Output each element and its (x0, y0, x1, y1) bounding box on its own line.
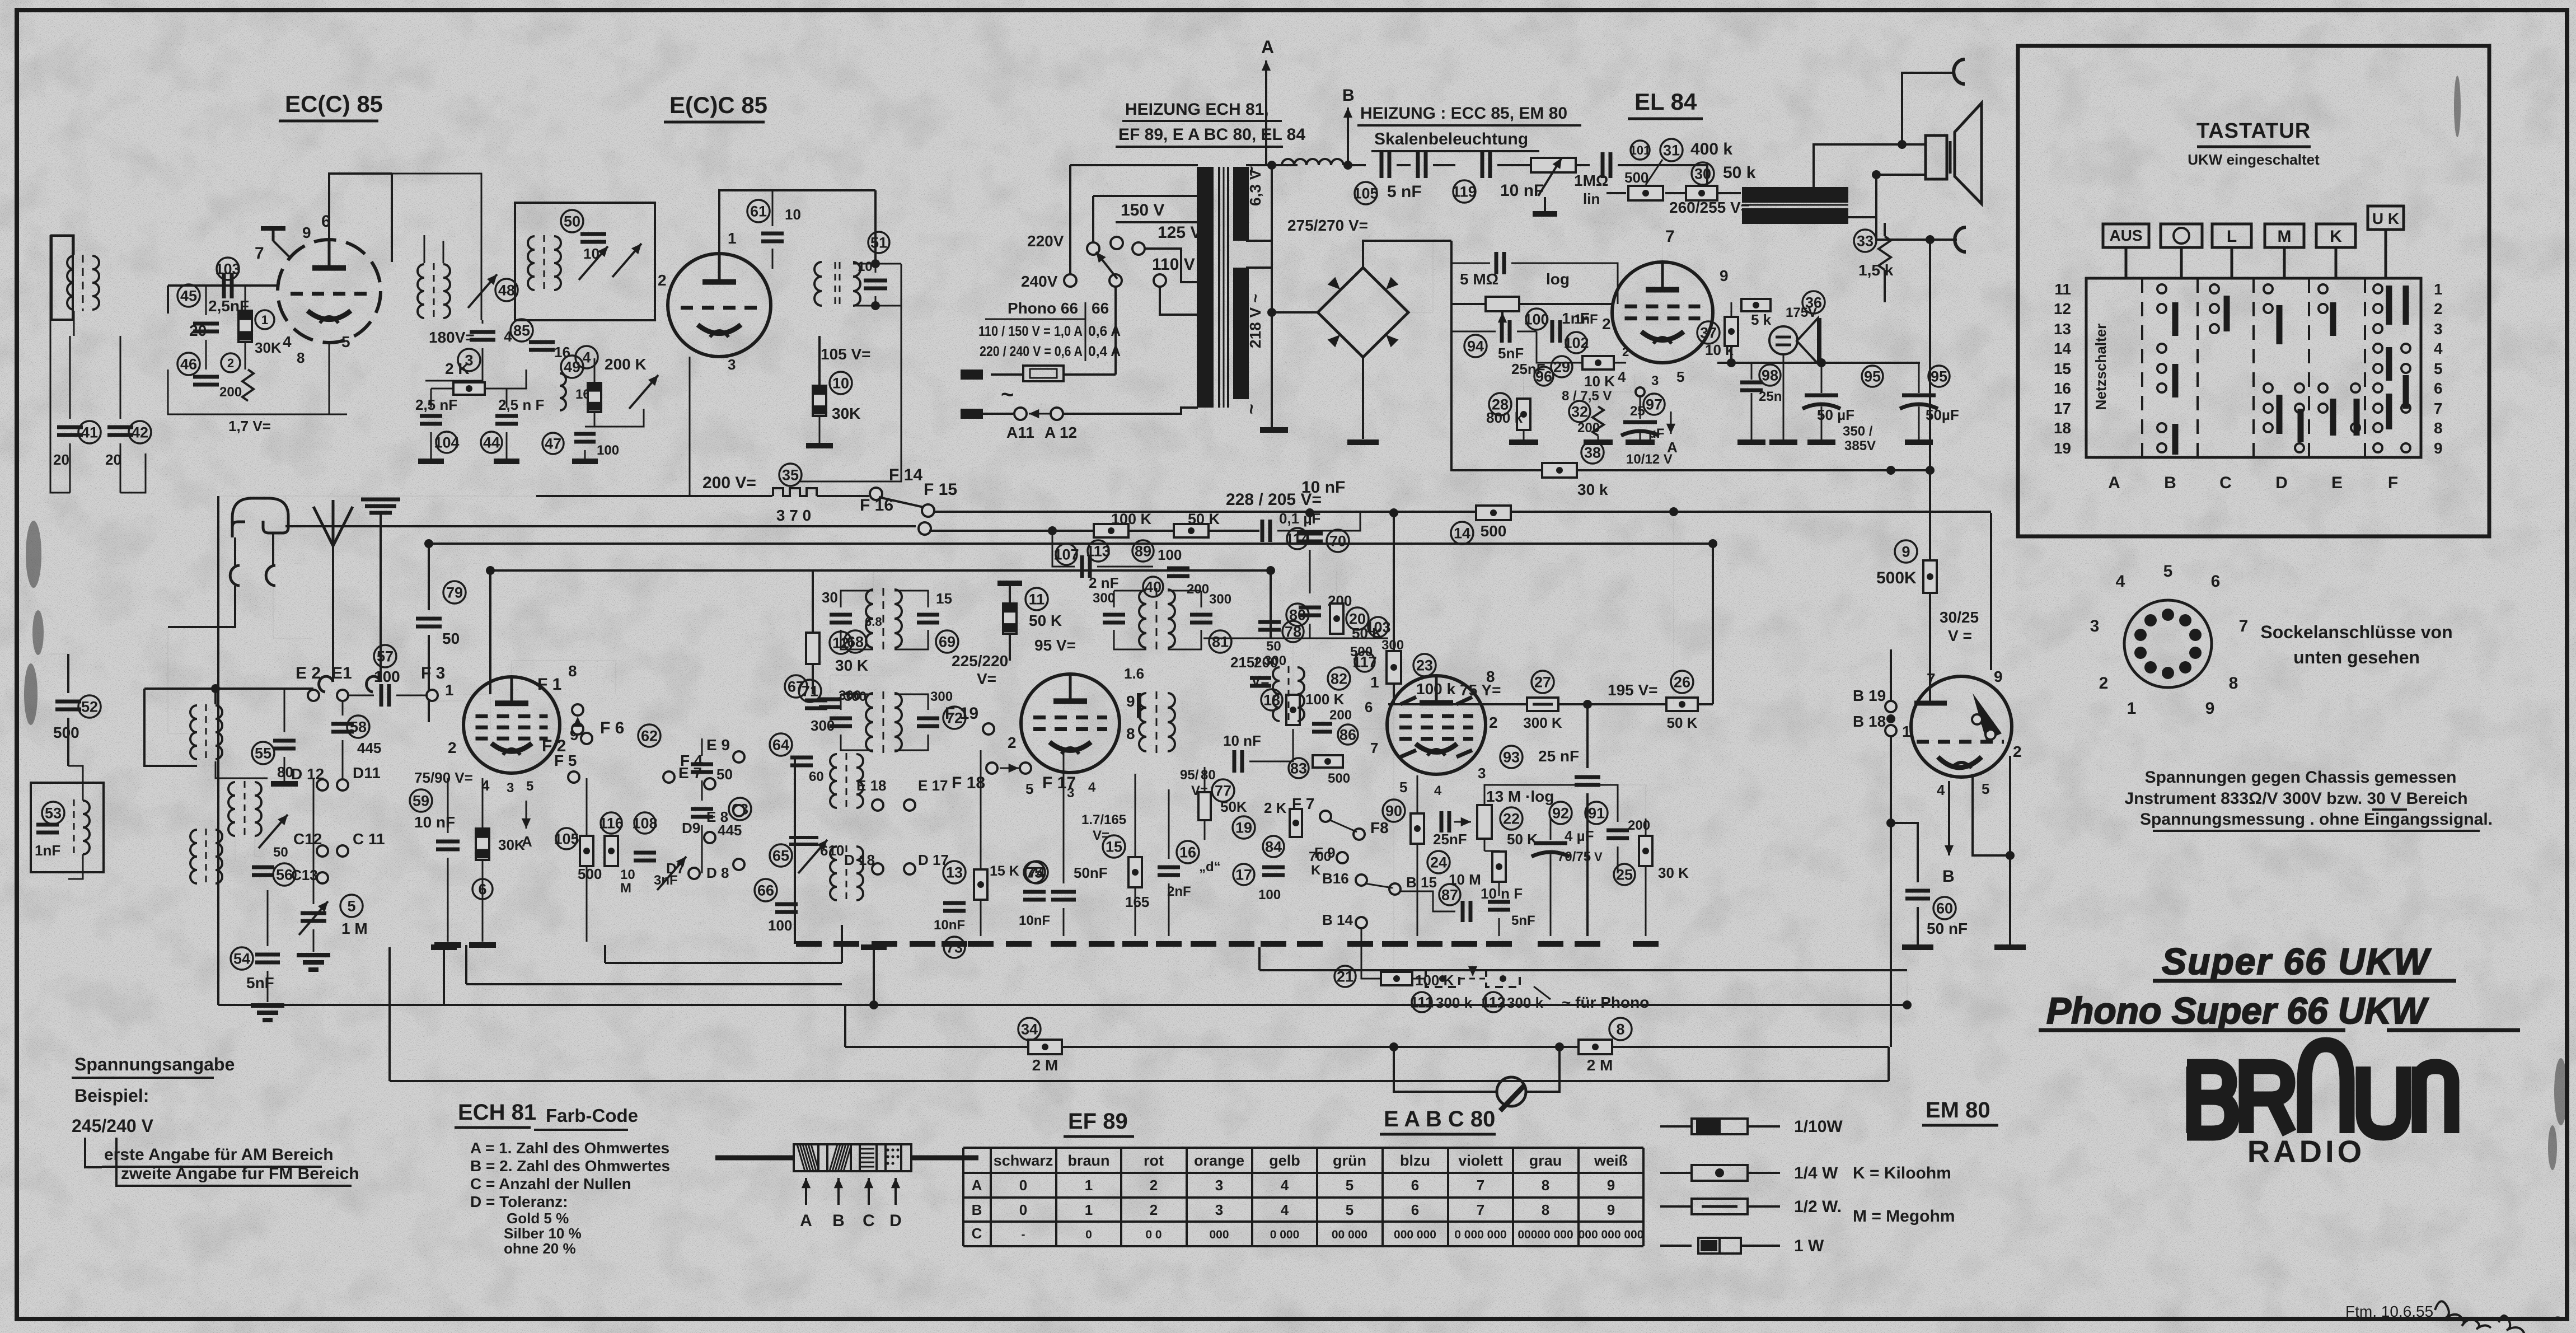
wire pin9 from rail (1990, 513, 1992, 670)
svg-text:500K: 500K (1876, 569, 1917, 587)
input coil left (67, 256, 74, 310)
svg-text:D: D (2275, 474, 2288, 492)
svg-text:30K: 30K (832, 405, 860, 422)
svg-text:83: 83 (1290, 760, 1307, 777)
svg-text:Spannungsangabe: Spannungsangabe (74, 1054, 235, 1074)
svg-text:180V=: 180V= (429, 329, 475, 346)
ground bars under IF1 (796, 941, 822, 947)
ref number (116) (601, 812, 622, 834)
svg-text:50 K: 50 K (1667, 714, 1698, 731)
bridge rectifier (1318, 268, 1408, 357)
grid antenna stub V1 (261, 226, 285, 231)
svg-text:15: 15 (936, 590, 952, 607)
plug hook top (1954, 59, 1965, 84)
heater coil choke (1266, 164, 1282, 166)
svg-text:38: 38 (1584, 445, 1601, 461)
svg-text:5nF: 5nF (1498, 345, 1524, 362)
ref number (19) (1233, 816, 1255, 839)
TASTATUR box frame (2018, 46, 2489, 536)
ref number (50) (561, 210, 583, 232)
svg-text:A 12: A 12 (1045, 424, 1077, 441)
svg-text:5: 5 (1346, 1177, 1353, 1194)
ref number (9) (1895, 540, 1917, 563)
vertical x2990 rail (1673, 513, 1674, 704)
svg-text:107: 107 (1053, 546, 1079, 563)
svg-text:19: 19 (1235, 820, 1252, 836)
contact F4 (663, 771, 675, 783)
svg-text:7: 7 (1477, 1201, 1484, 1218)
svg-text:1 W: 1 W (1794, 1237, 1824, 1255)
svg-text:60: 60 (809, 769, 824, 784)
svg-text:20: 20 (105, 451, 121, 468)
wire (1887, 1047, 1890, 1081)
svg-text:51: 51 (870, 235, 887, 251)
svg-text:119: 119 (1452, 184, 1477, 200)
IFT1 secondary (866, 693, 873, 751)
svg-text:13 M ·log: 13 M ·log (1486, 788, 1554, 805)
tube V3 ECH81 heptode (463, 677, 560, 773)
svg-text:V=: V= (1093, 828, 1109, 843)
ref number (72) (943, 707, 966, 729)
wire (1484, 785, 1618, 822)
svg-text:10 nF: 10 nF (414, 813, 455, 831)
ref number (22) (1500, 807, 1523, 830)
ref number (1) (255, 310, 274, 329)
power transformer 6,3V winding (1233, 167, 1249, 241)
svg-text:6: 6 (321, 212, 331, 231)
ref number (111) (1412, 992, 1432, 1012)
IFT2 primary (1139, 590, 1146, 648)
wire grid V1 (168, 284, 278, 287)
svg-text:49: 49 (564, 359, 580, 376)
svg-text:Skalenbeleuchtung: Skalenbeleuchtung (1374, 130, 1528, 148)
svg-text:F 1: F 1 (537, 675, 561, 694)
svg-text:300 k: 300 k (1436, 994, 1473, 1011)
wire (1168, 789, 1170, 859)
svg-text:300 k: 300 k (1507, 994, 1544, 1011)
svg-text:3: 3 (2090, 617, 2100, 635)
wire 228/205V rail (935, 511, 1991, 513)
ref number (51) (868, 232, 889, 253)
svg-text:30 K: 30 K (835, 657, 868, 674)
capacitor 25nF coupling (1441, 811, 1449, 832)
svg-text:25n: 25n (1759, 389, 1782, 404)
svg-text:93: 93 (1503, 749, 1520, 766)
ground bars ECH81 stage (434, 942, 461, 948)
band arrows ABCD (805, 1178, 807, 1205)
resistor color code body (794, 1144, 911, 1171)
svg-text:2,5 n F: 2,5 n F (498, 396, 544, 413)
svg-text:HEIZUNG ECH 81,: HEIZUNG ECH 81, (1125, 100, 1269, 119)
wire (245, 342, 246, 370)
svg-text:1: 1 (1902, 723, 1911, 740)
svg-text:1: 1 (261, 313, 268, 327)
ref number (113) (1088, 540, 1109, 562)
ref number (41) (78, 421, 101, 443)
EM80 target wedge (1973, 693, 2002, 740)
ref number (69) (936, 630, 958, 653)
ref number (108) (634, 812, 655, 834)
capacitor 2,5nF left (420, 416, 442, 424)
capacitor 300 left IFT2 (1103, 615, 1125, 623)
svg-text:3: 3 (1215, 1201, 1223, 1218)
svg-text:350 /: 350 / (1843, 424, 1873, 439)
IF box bottom outer (466, 983, 842, 985)
svg-text:000 000: 000 000 (1394, 1228, 1436, 1241)
svg-text:EF 89, E A BC 80, EL 84: EF 89, E A BC 80, EL 84 (1118, 125, 1305, 144)
resistor (6) 30K (476, 829, 489, 860)
svg-text:~: ~ (1241, 166, 1261, 176)
svg-text:275/270 V=: 275/270 V= (1287, 217, 1368, 234)
ref number (74) (1025, 861, 1048, 883)
svg-text:100: 100 (768, 917, 792, 934)
svg-text:1.7/165: 1.7/165 (1081, 812, 1126, 827)
svg-text:300 K: 300 K (1523, 714, 1562, 731)
wire phono links vertical (1442, 970, 1443, 987)
svg-text:2 M: 2 M (1032, 1056, 1058, 1074)
svg-text:µF: µF (1648, 426, 1665, 441)
svg-text:4: 4 (2434, 340, 2443, 357)
arrow A ECH81 (526, 801, 527, 829)
svg-text:E: E (2331, 474, 2343, 492)
svg-text:11: 11 (1029, 591, 1045, 608)
svg-text:2 K: 2 K (1264, 799, 1287, 816)
svg-text:95/: 95/ (1180, 768, 1199, 783)
ref number (90) (1383, 799, 1405, 822)
tube V2 E(C)C85 triode (668, 254, 771, 357)
svg-text:5: 5 (341, 333, 350, 350)
svg-text:5: 5 (2434, 360, 2443, 377)
capacitor (81) 300 right IFT2 (1190, 615, 1212, 623)
svg-text:68: 68 (847, 634, 864, 651)
ground V2 stage (806, 443, 833, 448)
svg-text:50: 50 (716, 766, 733, 783)
contact F6 (581, 733, 592, 744)
svg-text:95: 95 (1864, 368, 1881, 385)
svg-text:F 19: F 19 (945, 704, 978, 723)
svg-text:V=: V= (977, 670, 996, 687)
osc coil R (853, 262, 860, 306)
capacitor 5nF below (1488, 902, 1510, 910)
svg-text:K = Kiloohm: K = Kiloohm (1853, 1164, 1951, 1182)
ref number (57) (374, 645, 396, 667)
contact F19 (983, 723, 994, 735)
contacts F18 F17 (986, 763, 997, 774)
heater top wire (1246, 164, 1298, 166)
contact E2 (308, 690, 319, 701)
wire (245, 286, 246, 311)
ref number (65) (770, 844, 792, 867)
svg-text:77: 77 (1215, 783, 1231, 799)
junction dots on rails (1669, 507, 1678, 516)
contacts B16 B15 B14 (1356, 874, 1367, 886)
fuer Phono dashed links (1426, 970, 1459, 987)
wire (1361, 928, 1381, 979)
svg-text:2 M: 2 M (1587, 1056, 1613, 1074)
svg-text:B 19: B 19 (1853, 687, 1886, 704)
tube V4 EL84 pentode (1612, 262, 1713, 363)
svg-text:A: A (972, 1177, 982, 1194)
svg-text:75: 75 (1026, 864, 1043, 881)
ref number (45) (177, 284, 200, 307)
svg-text:91: 91 (1588, 805, 1605, 822)
svg-text:M: M (620, 881, 631, 896)
ref number (53) (42, 802, 64, 824)
svg-text:10: 10 (620, 867, 635, 882)
svg-text:8 / 7,5 V: 8 / 7,5 V (1562, 389, 1612, 404)
svg-text:E 8: E 8 (706, 808, 728, 825)
svg-text:245/240 V: 245/240 V (72, 1116, 154, 1136)
ground bars EL84 stage (1509, 439, 1538, 445)
svg-text:17: 17 (2054, 400, 2071, 417)
ref number (96) (1534, 367, 1553, 386)
speaker cone (1955, 103, 1982, 204)
svg-text:2: 2 (1150, 1201, 1158, 1218)
ref number (70) (1327, 530, 1349, 552)
wire rail from F16 right (929, 530, 1093, 532)
svg-text:unten gesehen: unten gesehen (2293, 647, 2420, 667)
ref number (75) (1024, 862, 1045, 883)
wire stub to rail (873, 947, 875, 1005)
svg-text:5 nF: 5 nF (1387, 183, 1422, 201)
svg-text:125 V: 125 V (1158, 223, 1201, 242)
svg-text:100: 100 (1258, 887, 1281, 902)
wire (167, 286, 169, 314)
svg-text:200: 200 (1577, 420, 1600, 436)
svg-text:2: 2 (1489, 714, 1498, 731)
wire down left (428, 544, 430, 610)
svg-text:1.6: 1.6 (1124, 665, 1144, 682)
potentiometer 1M lin (1531, 158, 1576, 172)
wire tank bottom (853, 305, 901, 307)
ref number (42) (129, 421, 151, 443)
resistor (38) 30k (1542, 463, 1577, 478)
switch bank frame (2086, 278, 2421, 457)
ref number (86) (1338, 724, 1358, 745)
svg-text:18: 18 (2054, 419, 2071, 437)
contact F1 (572, 704, 583, 715)
tuning cap main (299, 901, 328, 935)
wire pin2 down (2009, 756, 2011, 945)
left vertical wire from frame (50, 235, 70, 493)
ref number (25) (1614, 864, 1635, 885)
contacts B19 B18 (1885, 701, 1896, 712)
svg-text:K: K (2330, 227, 2342, 246)
svg-text:300: 300 (930, 689, 953, 704)
wire (144, 689, 197, 766)
svg-text:8: 8 (1542, 1201, 1549, 1218)
wire (50, 235, 74, 255)
ref number (40) (1143, 577, 1163, 597)
contacts C12 C11 (317, 845, 328, 857)
ref number (17) (1233, 864, 1254, 885)
svg-text:EL 84: EL 84 (1634, 88, 1697, 115)
wire (1537, 331, 1582, 363)
svg-text:6: 6 (1411, 1201, 1419, 1218)
svg-text:U K: U K (2372, 210, 2399, 227)
wire 200V to 30k (1451, 448, 1542, 470)
svg-text:4: 4 (283, 333, 292, 350)
ref number (24) (1427, 851, 1450, 873)
AM input transformer coils (190, 705, 197, 759)
svg-text:D 18: D 18 (844, 852, 875, 868)
ref number (6) (472, 879, 493, 899)
svg-text:0 000 000: 0 000 000 (1454, 1228, 1506, 1241)
svg-text:8: 8 (568, 662, 577, 680)
wire ECH81 anode to IF (512, 661, 616, 677)
wire EABC anode loop (1587, 704, 1588, 705)
svg-text:A: A (2108, 474, 2120, 492)
svg-text:1/4 W: 1/4 W (1794, 1164, 1838, 1182)
BRAUN logo (2187, 1045, 2452, 1133)
resistor (35) 370 (773, 488, 817, 496)
svg-text:A: A (1261, 37, 1274, 57)
svg-text:50: 50 (1266, 639, 1281, 654)
svg-text:0: 0 (1085, 1228, 1092, 1241)
wire B+ top (1363, 241, 1451, 268)
capacitor 15 IFT1 (917, 615, 939, 623)
svg-text:Gold 5 %: Gold 5 % (507, 1210, 569, 1227)
terminal A12 (1051, 408, 1063, 420)
svg-text:5nF: 5nF (246, 974, 274, 991)
ref number (20) (1346, 607, 1369, 630)
contacts D18 D17 (872, 863, 883, 874)
svg-text:4: 4 (1618, 368, 1626, 385)
ref number (119) (1453, 180, 1476, 203)
capacitor (101) 500 (1603, 152, 1610, 178)
contact F16 (919, 522, 931, 535)
wire (205, 340, 207, 370)
svg-text:9: 9 (1720, 267, 1729, 284)
svg-text:70/75: 70/75 (1557, 849, 1591, 864)
contacts E18 E17 (872, 799, 883, 811)
svg-text:2 nF: 2 nF (1089, 574, 1118, 591)
ref number (15) (1103, 835, 1125, 858)
capacitor (102) 1nF (1552, 320, 1560, 343)
svg-text:grün: grün (1333, 1152, 1366, 1169)
svg-text:1nF: 1nF (1574, 312, 1598, 327)
ref number (31) (1660, 139, 1683, 161)
svg-text:9: 9 (1901, 544, 1910, 560)
wire (489, 570, 491, 694)
wire (874, 190, 877, 264)
ref number (56) (273, 863, 296, 886)
svg-text:200: 200 (1628, 818, 1650, 833)
svg-text:100: 100 (374, 668, 400, 685)
svg-text:5 k: 5 k (1751, 311, 1772, 328)
wire to 50nF (1891, 823, 1918, 882)
color band C lines (860, 1149, 874, 1167)
ref number (85) (510, 319, 533, 342)
svg-text:225/220: 225/220 (952, 652, 1008, 670)
mains plug second pole (961, 409, 983, 419)
speaker wires and plugs (1814, 144, 1924, 188)
svg-text:D 8: D 8 (706, 864, 729, 881)
coil anode tank (443, 264, 450, 318)
svg-text:59: 59 (413, 793, 429, 810)
svg-text:1: 1 (2434, 280, 2443, 298)
svg-text:103: 103 (215, 261, 240, 278)
contact C13 (317, 872, 328, 883)
long rail top of IF strip (429, 542, 1713, 545)
potentiometer 5M log (1486, 297, 1519, 311)
svg-text:75/90 V=: 75/90 V= (414, 769, 473, 786)
wire grid row (1451, 303, 1612, 305)
svg-text:30K: 30K (498, 836, 525, 853)
ref number (35) (779, 464, 802, 486)
resistor (12) 30K left of IF (806, 633, 819, 664)
contact F2 (572, 723, 583, 735)
svg-text:10: 10 (583, 245, 599, 262)
svg-text:65: 65 (772, 848, 789, 864)
resistor (1) 30K (238, 311, 252, 342)
svg-text:RADIO: RADIO (2247, 1134, 2365, 1169)
svg-text:111: 111 (1410, 994, 1434, 1011)
ref number (73) (944, 937, 965, 958)
terminal A11 (1014, 408, 1027, 420)
ref number (77) (1212, 779, 1234, 802)
IF box bottom inner (605, 962, 842, 964)
svg-text:195 V=: 195 V= (1608, 681, 1658, 699)
svg-text:D7: D7 (666, 860, 685, 877)
wire speaker bottom terminal (1848, 175, 1924, 217)
svg-text:400 k: 400 k (1690, 140, 1732, 158)
ref number (28) (1489, 393, 1511, 415)
switch contacts (2157, 284, 2166, 293)
trimmer cap band filter 2 (612, 244, 641, 277)
svg-text:HEIZUNG : ECC 85, EM 80: HEIZUNG : ECC 85, EM 80 (1360, 104, 1567, 123)
terminal 240V (1064, 274, 1076, 287)
svg-text:40: 40 (1145, 579, 1161, 596)
wire grid ECH81 (432, 700, 463, 701)
wires IFT2 (1114, 590, 1146, 592)
svg-text:31: 31 (1663, 142, 1680, 159)
svg-text:70: 70 (1329, 533, 1346, 550)
svg-text:V =: V = (1948, 627, 1972, 644)
svg-text:9: 9 (1607, 1177, 1615, 1194)
svg-text:85: 85 (513, 322, 530, 339)
capacitor (114) 0,1uF (1262, 520, 1270, 542)
svg-text:300: 300 (1209, 592, 1231, 607)
svg-text:3: 3 (2434, 320, 2443, 338)
EM80 pin7 shadow anode bar (1929, 677, 1931, 701)
svg-text:66: 66 (757, 882, 774, 899)
ref number (54) (231, 947, 253, 970)
ref number (93) (1500, 746, 1523, 768)
wattage symbol 1/2W (1660, 1205, 1692, 1208)
vertical from 23 down (1393, 704, 1394, 970)
svg-text:C: C (972, 1225, 982, 1242)
svg-text:200 K: 200 K (605, 356, 647, 373)
svg-text:D: D (889, 1212, 902, 1230)
wire 230/210V row (1717, 362, 1920, 364)
power transformer primary winding (1197, 167, 1214, 408)
svg-text:E A B C 80: E A B C 80 (1384, 1107, 1495, 1131)
svg-text:29: 29 (1553, 359, 1570, 376)
ref number (91) (1585, 802, 1608, 824)
svg-text:000 000 000: 000 000 000 (1579, 1228, 1644, 1241)
svg-text:K: K (1311, 863, 1321, 878)
capacitor 200 near 86 (1312, 724, 1332, 732)
svg-text:00 000: 00 000 (1332, 1228, 1367, 1241)
svg-text:zweite Angabe fur FM Bereich: zweite Angabe fur FM Bereich (121, 1164, 359, 1183)
svg-text:1,5 k: 1,5 k (1858, 261, 1894, 279)
svg-text:14: 14 (1454, 525, 1470, 542)
svg-text:95 V=: 95 V= (1034, 637, 1076, 654)
ref number (12) (830, 632, 852, 654)
mains fuse and plug (1114, 287, 1117, 375)
svg-text:52: 52 (81, 699, 98, 715)
